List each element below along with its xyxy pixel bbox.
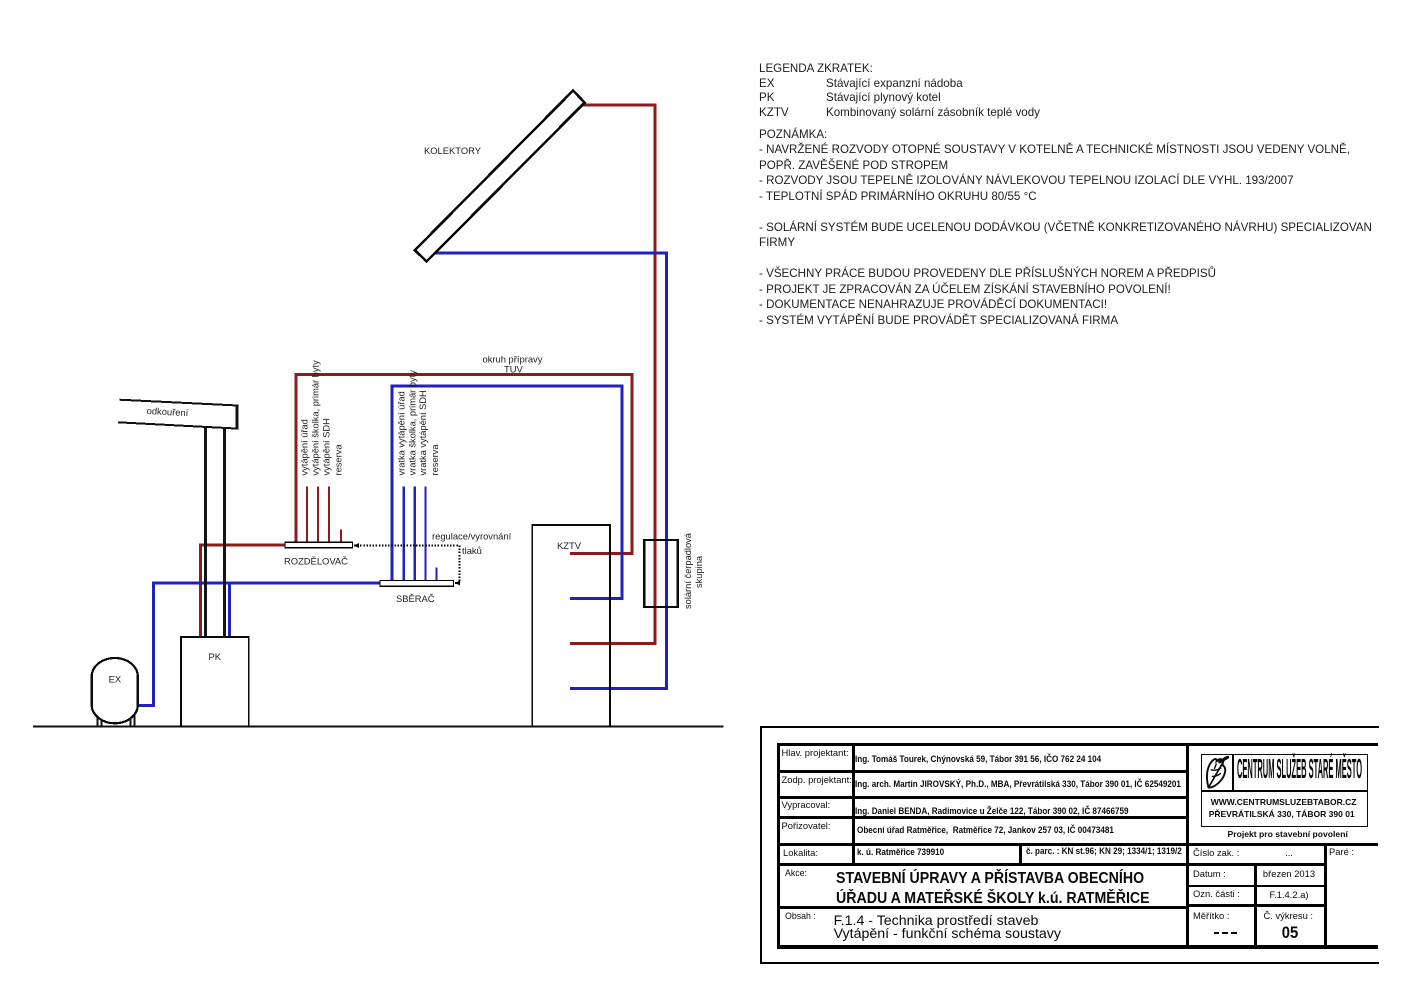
- svg-text:PK: PK: [209, 651, 222, 662]
- svg-text:solární čerpadlová: solární čerpadlová: [683, 532, 693, 609]
- svg-text:tlaků: tlaků: [462, 545, 482, 556]
- svg-text:vytápění úřad: vytápění úřad: [300, 419, 310, 475]
- svg-text:vytápění SDH: vytápění SDH: [322, 418, 332, 475]
- svg-text:regulace/vyrovnání: regulace/vyrovnání: [432, 531, 512, 542]
- svg-text:odkouření: odkouření: [146, 405, 189, 418]
- svg-text:TUV: TUV: [504, 364, 523, 375]
- svg-text:vratka vytápění úřad: vratka vytápění úřad: [396, 391, 406, 475]
- svg-text:vytápění školka, primár byty: vytápění školka, primár byty: [311, 360, 321, 476]
- svg-text:reserva: reserva: [334, 444, 344, 476]
- svg-text:skupina: skupina: [694, 555, 704, 588]
- svg-text:KZTV: KZTV: [557, 540, 582, 551]
- svg-text:ROZDĚLOVAČ: ROZDĚLOVAČ: [284, 556, 348, 567]
- svg-text:EX: EX: [109, 674, 122, 685]
- svg-text:vratka školka, primár byty: vratka školka, primár byty: [407, 370, 417, 476]
- svg-text:KOLEKTORY: KOLEKTORY: [424, 145, 482, 156]
- svg-text:SBĚRAČ: SBĚRAČ: [396, 593, 435, 604]
- svg-text:reserva: reserva: [430, 444, 440, 476]
- svg-text:vratka vytápění SDH: vratka vytápění SDH: [418, 390, 428, 475]
